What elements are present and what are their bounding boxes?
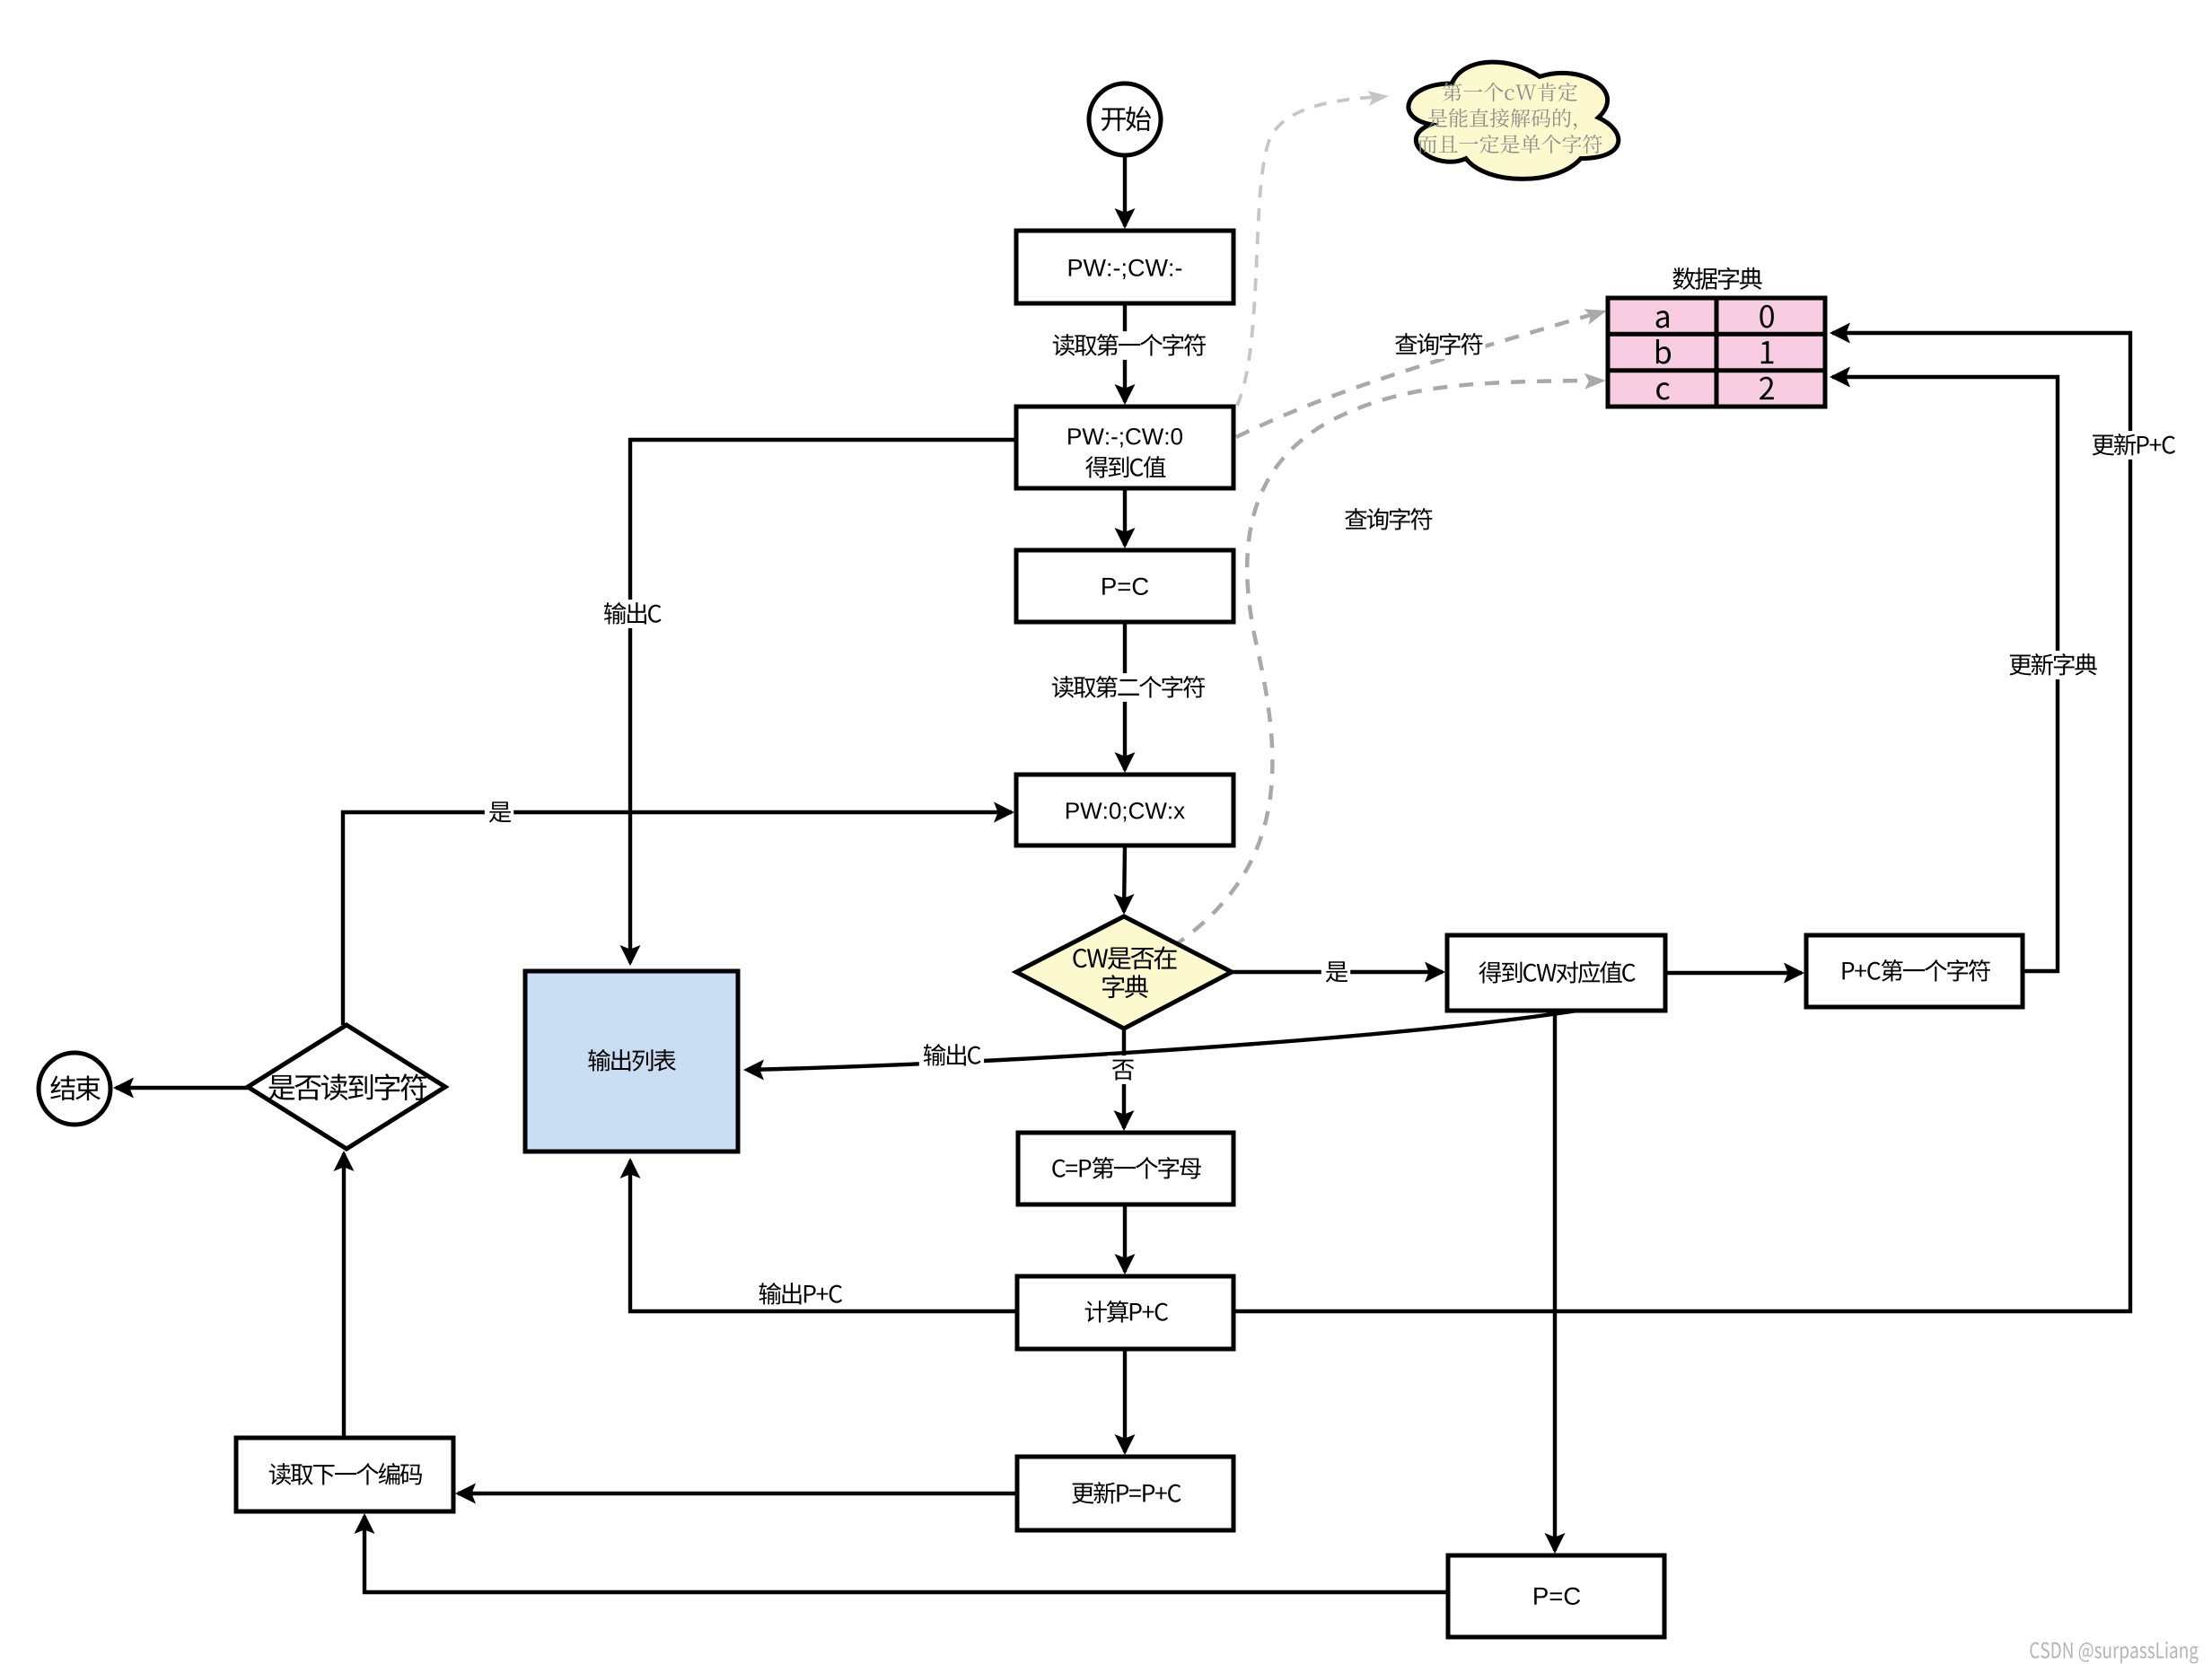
label output P+C [754,1280,845,1309]
end circle [39,1053,110,1125]
box2 PW:-;CW:0 [1016,407,1233,488]
label read second char [1048,673,1208,702]
box1 PW:-;CW:- [1016,231,1233,303]
box8 calc P+C [1017,1276,1233,1349]
label yes diamond1 [1321,958,1350,986]
start circle [1089,83,1161,155]
box5 get value C [1447,935,1665,1011]
edge box8->outputlist output P+C [630,1160,1017,1311]
box4 PW:0;CW:x [1016,775,1233,845]
edge box5->box11 [1553,1011,1557,1551]
dashed query curve from diamond to dict row c [1172,381,1596,947]
edge box3->box4 [1123,622,1127,770]
edge box6->dict update [1832,377,2058,971]
edge box8->box9 [1123,1349,1127,1452]
edge diamond2->box4 yes [343,812,1012,1025]
watermark [2030,1642,2198,1664]
edge box2->outputlist output C [630,440,1016,963]
label output C left [600,600,664,628]
edge diamond1->box7 no [1122,1029,1126,1128]
cloud text [1443,83,1577,101]
box7 C=P first letter [1018,1133,1233,1204]
box10 read next code [236,1438,453,1511]
box9 update P=P+C [1017,1457,1233,1530]
edge diamond1->box5 yes [1232,970,1443,974]
label output C curve [919,1041,984,1070]
edge diamond2->end [116,1086,248,1090]
edge box2->box3 [1123,488,1127,546]
label query char 2 [1340,505,1435,534]
label update dict [2005,651,2100,679]
edge box9->box10 [458,1492,1017,1495]
dashed query curve from PW box to dict row a [1236,313,1596,437]
table cells [1656,311,1669,328]
dashed annotation curve to cloud [1237,97,1378,406]
label no [1108,1055,1137,1084]
edge start->box1 [1123,155,1127,226]
table title [1672,267,1761,290]
curved edge box5->outputlist output C [747,1011,1577,1070]
box6 P+C first char [1806,935,2023,1007]
blue output list box [525,971,738,1152]
edge box10->diamond2 [342,1153,346,1438]
label read first char [1049,331,1209,360]
edge box4->diamond1 [1124,845,1125,912]
label yes left [485,798,513,827]
edge box5->box6 [1665,971,1802,975]
edge box7->box8 [1123,1204,1127,1272]
diamond2 read char? [248,1025,445,1149]
box3 P=C [1016,550,1233,622]
data dictionary table [1608,298,1825,407]
edge box11->box10 [364,1516,1448,1592]
edge calc->dict update P+C [1233,333,2130,1311]
cloud annotation [1409,62,1619,179]
diamond1 CW in dict? [1016,916,1232,1029]
label query char 1 [1391,330,1486,359]
box11 P=C bottom [1448,1555,1664,1637]
label update P+C [2087,431,2178,460]
edge box1->box2 [1123,303,1127,402]
